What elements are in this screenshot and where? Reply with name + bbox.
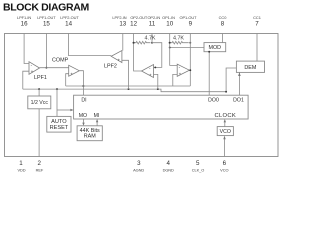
svg-text:1/2 Vcc: 1/2 Vcc: [31, 100, 49, 106]
wire pin11 stub: [151, 34, 153, 43]
node OP2 inverting junction: [154, 66, 156, 68]
pin 3 label AGND: [133, 160, 144, 173]
svg-text:LPF1-OUT: LPF1-OUT: [37, 15, 56, 20]
pin 1 label VDD: [17, 160, 25, 173]
svg-text:AGND: AGND: [133, 168, 144, 173]
wire auto reset from rail: [56, 89, 58, 116]
pin 2 label REF: [36, 160, 44, 173]
svg-text:DO0: DO0: [208, 98, 219, 104]
wire pin12 to OP2 output: [134, 34, 142, 72]
VCO box: [217, 127, 233, 136]
svg-text:MO: MO: [79, 113, 87, 119]
svg-text:CLK_O: CLK_O: [192, 168, 205, 173]
op-amp LPF1: [29, 62, 47, 81]
svg-text:11: 11: [149, 21, 156, 28]
wire MI from RAM with arrow: [96, 120, 98, 126]
wire OP2 + input to bias rail: [154, 74, 158, 89]
node MOD input junction: [169, 47, 171, 49]
pin 5 label CLK_O: [192, 160, 205, 173]
node bias-REF junction: [38, 88, 40, 90]
wire OP1 + input to output rail: [173, 74, 177, 86]
svg-text:+: +: [31, 69, 34, 74]
svg-text:OP2-IN: OP2-IN: [147, 15, 160, 20]
node bias DEM corner: [225, 91, 227, 93]
svg-text:RAM: RAM: [84, 134, 96, 140]
node OP2 bias junction: [157, 88, 159, 90]
svg-text:+: +: [179, 72, 182, 77]
wire pin15 to LPF1 output: [45, 34, 47, 68]
svg-text:MI: MI: [94, 113, 100, 119]
wire VCO to CLOCK with arrow: [224, 122, 226, 126]
svg-text:LPF2-OUT: LPF2-OUT: [60, 15, 79, 20]
wire pin10 to OP1 inverting input: [170, 34, 178, 66]
svg-text:LPF1: LPF1: [34, 75, 47, 81]
wire pin9 to OP1 output and rail A: [189, 34, 191, 87]
wire 1/2 Vcc to rail and to pin 2 REF: [38, 89, 40, 156]
svg-text:LPF2: LPF2: [104, 64, 117, 70]
chip outline: [5, 34, 279, 157]
node OP1 output junction: [189, 69, 191, 71]
wire pin16 to LPF1 inverting input: [24, 34, 29, 64]
svg-text:+: +: [118, 58, 121, 63]
wire LPF2 + input to bias rail: [122, 60, 129, 89]
node COMP output junction: [82, 85, 84, 87]
pin 7 label CC1: [253, 15, 261, 28]
svg-text:9: 9: [189, 21, 193, 28]
svg-text:BLOCK DIAGRAM: BLOCK DIAGRAM: [3, 1, 89, 13]
pin 6 label VCO: [220, 160, 228, 173]
pin 8 label CC0: [219, 15, 228, 28]
svg-text:4.7K: 4.7K: [145, 36, 156, 42]
wire bias riser to DEM input: [226, 68, 236, 92]
svg-text:DI: DI: [81, 98, 86, 104]
DEM box U-DEM: [236, 61, 264, 72]
svg-text:CLOCK: CLOCK: [215, 113, 236, 119]
svg-text:DGND: DGND: [163, 168, 174, 173]
resistor R1 4.7K: [133, 36, 156, 45]
svg-text:DEM: DEM: [244, 65, 256, 71]
node auto reset junction: [56, 88, 58, 90]
pin 11 label OP2-IN: [147, 15, 160, 28]
node LPF1 output junction: [45, 67, 47, 69]
wire MOD output to DO0: [208, 52, 210, 95]
op-amp OP1: [177, 64, 189, 77]
node MOD output junction: [208, 51, 210, 53]
op-amp OP2: [142, 65, 154, 78]
svg-text:LPF2-IN: LPF2-IN: [112, 15, 126, 20]
svg-text:OP2-OUT: OP2-OUT: [130, 15, 148, 20]
svg-text:COMP: COMP: [52, 58, 69, 64]
MOD box U-MOD: [204, 43, 226, 52]
pin 4 label DGND: [163, 160, 174, 173]
svg-text:MOD: MOD: [209, 45, 222, 51]
svg-text:16: 16: [21, 21, 28, 28]
RAM box 44K bits: [77, 126, 102, 141]
wire COMP output rail A: [66, 85, 191, 87]
svg-text:OP1-OUT: OP1-OUT: [180, 15, 198, 20]
op-amp COMP: [52, 58, 79, 77]
svg-text:VCO: VCO: [220, 129, 231, 135]
svg-text:3: 3: [137, 160, 141, 167]
digital core box with CLOCK: [74, 95, 249, 119]
wire MO to RAM with arrow: [83, 119, 85, 125]
wire pin8 to MOD: [222, 34, 224, 43]
svg-text:10: 10: [166, 21, 173, 28]
svg-text:+: +: [149, 73, 152, 78]
wire auto reset to digital box with arrow: [57, 109, 72, 111]
svg-text:4: 4: [166, 160, 170, 167]
wire OP2 inverting input from pin11: [152, 43, 162, 68]
wire bias rail 1/2 Vcc: [23, 89, 226, 92]
wire pin13 to LPF2 input: [122, 34, 124, 51]
pin 10 label OP1-IN: [162, 15, 175, 28]
resistor R2 4.7K: [169, 36, 192, 45]
op-amp LPF2: [104, 51, 122, 70]
svg-text:CC0: CC0: [219, 15, 228, 20]
AUTO RESET box: [47, 116, 71, 132]
svg-text:14: 14: [65, 21, 72, 28]
svg-text:5: 5: [196, 160, 200, 167]
wire pin7 to DEM: [256, 34, 258, 62]
svg-text:6: 6: [223, 160, 227, 167]
svg-text:LPF1-IN: LPF1-IN: [17, 15, 31, 20]
node pin12 resistor junction: [133, 42, 135, 44]
pin 12 label OP2-OUT: [130, 15, 148, 28]
wire DEM bottom to digital box with arrow: [238, 72, 240, 95]
wire LPF1 output to COMP input: [40, 67, 69, 69]
svg-text:7: 7: [255, 21, 259, 28]
wire pin6 to VCO with arrow: [224, 139, 226, 157]
svg-text:13: 13: [119, 21, 126, 28]
pin 15 label LPF1-OUT: [37, 15, 56, 28]
pin 13 label LPF2-IN: [112, 15, 126, 28]
half-Vcc reference box: [28, 96, 51, 109]
svg-text:2: 2: [37, 160, 41, 167]
pin 14 label LPF2-OUT: [60, 15, 79, 28]
svg-text:VDD: VDD: [17, 168, 25, 173]
svg-text:12: 12: [130, 21, 137, 28]
pin 9 label OP1-OUT: [180, 15, 198, 28]
svg-text:8: 8: [221, 21, 225, 28]
wire pin14 to LPF2 output: [69, 34, 112, 56]
wire COMP plus feedback: [66, 74, 69, 86]
svg-text:15: 15: [43, 21, 50, 28]
wire LPF1 + input to bias rail: [23, 71, 29, 89]
node pin10 resistor junction: [169, 42, 171, 44]
svg-text:+: +: [70, 71, 73, 76]
svg-text:DO1: DO1: [233, 98, 244, 104]
svg-text:CC1: CC1: [253, 15, 261, 20]
pin 16 label LPF1-IN: [17, 15, 31, 28]
wire COMP output to DI: [79, 71, 83, 96]
node LPF2 bias junction: [128, 88, 130, 90]
svg-text:RESET: RESET: [50, 125, 69, 131]
svg-text:OP1-IN: OP1-IN: [162, 15, 175, 20]
svg-text:4.7K: 4.7K: [173, 36, 184, 42]
svg-text:VCO: VCO: [220, 168, 228, 173]
svg-text:REF: REF: [36, 168, 44, 173]
wire pin10 node to MOD input: [170, 47, 204, 49]
svg-text:1: 1: [19, 160, 23, 167]
